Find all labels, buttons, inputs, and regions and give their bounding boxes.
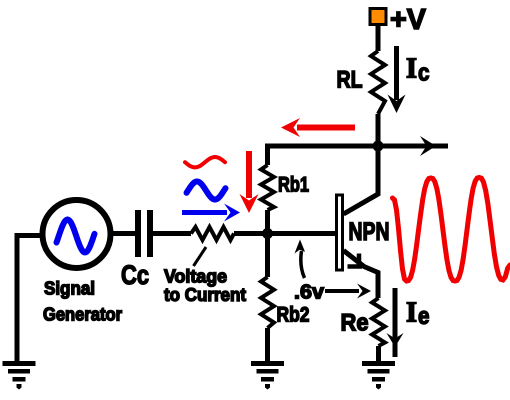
svg-text:.6v: .6v [294, 282, 325, 304]
svg-text:NPN: NPN [349, 218, 390, 246]
svg-text:I: I [406, 298, 417, 329]
svg-text:Re: Re [341, 310, 369, 337]
svg-text:e: e [418, 303, 430, 330]
svg-text:I: I [406, 54, 417, 85]
svg-text:Signal: Signal [44, 279, 95, 299]
svg-text:Generator: Generator [43, 305, 122, 325]
svg-text:c: c [418, 60, 430, 87]
svg-text:Voltage: Voltage [164, 267, 227, 287]
svg-text:to Current: to Current [164, 285, 246, 305]
svg-text:RL: RL [337, 67, 363, 94]
svg-text:Rb2: Rb2 [277, 304, 310, 327]
svg-text:Cc: Cc [121, 260, 149, 290]
svg-text:+V: +V [390, 4, 427, 36]
svg-text:Rb1: Rb1 [278, 174, 309, 197]
